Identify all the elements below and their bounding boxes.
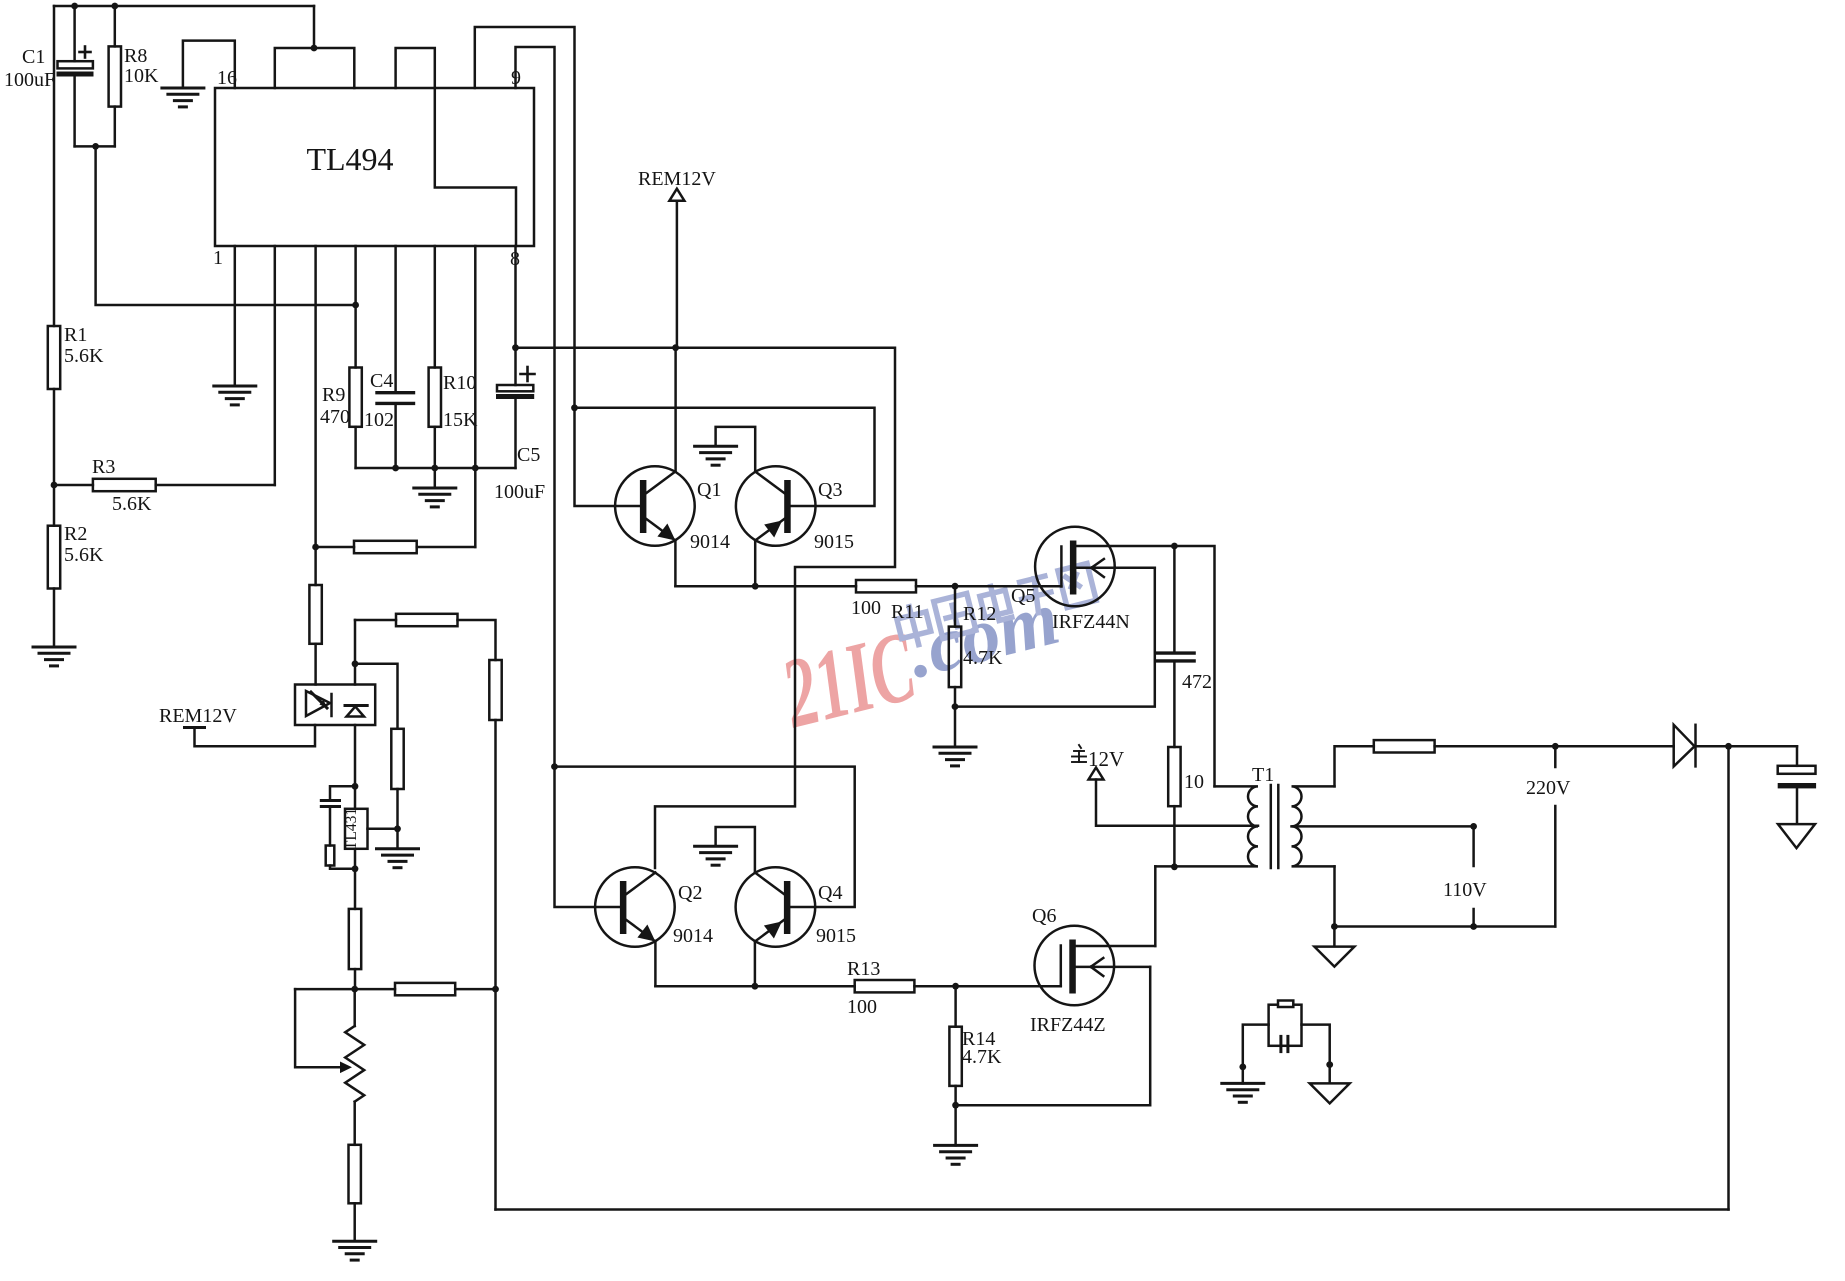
resistor R11 xyxy=(856,580,916,592)
wire jog down to feedback run xyxy=(96,146,356,305)
label 220V on drop wire xyxy=(1554,746,1557,926)
capacitor C5 (electrolytic) xyxy=(496,246,535,468)
IC U3 TL431 xyxy=(345,786,398,869)
svg-text:110V: 110V xyxy=(1443,879,1487,901)
svg-text:10K: 10K xyxy=(124,65,159,87)
wire R12 bottom to ground xyxy=(954,707,957,747)
wire left rail down to R1 xyxy=(53,6,56,326)
node junction TL431 anode xyxy=(352,865,359,872)
svg-text:470: 470 xyxy=(320,406,350,428)
svg-text:T1: T1 xyxy=(1252,764,1274,786)
svg-text:TL494: TL494 xyxy=(306,141,393,177)
resistor R8 xyxy=(109,6,121,146)
resistor R3 xyxy=(54,479,275,491)
transistor Q5 IRFZ44N (N-MOSFET) xyxy=(1035,527,1115,607)
wire stub to ground on bus xyxy=(434,468,437,488)
svg-text:R2: R2 xyxy=(64,523,87,545)
svg-text:5.6K: 5.6K xyxy=(64,345,104,367)
resistor sense (unlabeled horizontal) xyxy=(295,983,495,995)
svg-text:1: 1 xyxy=(213,247,223,269)
resistor feedback chain (unlabeled vertical) xyxy=(489,660,501,1210)
ground (timing bus) xyxy=(414,488,456,507)
wire Q6 gate lead xyxy=(956,985,1061,988)
svg-text:R13: R13 xyxy=(847,958,880,980)
wire Q4 collector to ground loop xyxy=(716,827,755,873)
node junction output to bottom return xyxy=(1725,743,1732,750)
svg-text:10: 10 xyxy=(1184,771,1204,793)
wire R13 to gate node xyxy=(914,985,955,988)
capacitor C4 xyxy=(377,246,414,468)
node junction secondary bottom xyxy=(1331,923,1338,930)
wire Q1 collector xyxy=(674,348,677,472)
wire opto branch to divider xyxy=(355,664,398,729)
ground (pin 16) xyxy=(162,88,204,107)
svg-text:R8: R8 xyxy=(124,45,147,67)
resistor opto series (unlabeled) xyxy=(309,547,321,685)
wire top supply rail xyxy=(54,5,314,8)
svg-text:TL431: TL431 xyxy=(343,808,360,850)
node junction resonator left xyxy=(1239,1064,1246,1071)
label 主12V xyxy=(1072,745,1086,762)
resistor 10 (snubber) xyxy=(1168,747,1180,867)
svg-text:Q5: Q5 xyxy=(1011,585,1035,607)
svg-text:C5: C5 xyxy=(517,444,540,466)
wire driver rail to R11 xyxy=(675,585,856,588)
wire timing bottom bus xyxy=(356,467,516,470)
svg-text:R10: R10 xyxy=(443,372,476,394)
wire top pins pair loop (VCC) xyxy=(275,48,355,88)
resistor feedback (unlabeled) on node row 547 xyxy=(316,541,476,553)
optocoupler photodiode xyxy=(345,706,367,717)
node junction R8 top xyxy=(111,3,118,10)
resistor R12 xyxy=(949,586,961,706)
wire supply run to MOSFET side xyxy=(516,348,896,868)
resistor R10 xyxy=(429,246,441,468)
wire photodiode top xyxy=(354,620,357,685)
wire R14 bottom to ground xyxy=(954,1105,957,1145)
transformer core xyxy=(1270,785,1273,868)
svg-text:100: 100 xyxy=(847,996,877,1018)
ground (bottom left) xyxy=(334,1241,376,1260)
svg-text:R9: R9 xyxy=(322,384,345,406)
resistor bottom (unlabeled) xyxy=(349,1145,361,1241)
svg-text:R12: R12 xyxy=(963,603,996,625)
node junction R13/R14/Q6 gate xyxy=(952,983,959,990)
svg-text:R3: R3 xyxy=(92,456,115,478)
wire rheostat top stub xyxy=(353,989,356,1026)
wire R11 to gate node xyxy=(916,585,955,588)
wire Q3 emitter to rail xyxy=(754,541,757,587)
svg-text:9015: 9015 xyxy=(814,531,854,553)
wire supply to TL494 top pins xyxy=(313,6,316,48)
chassis arrow (resonator) xyxy=(1310,1083,1350,1103)
svg-text:Q4: Q4 xyxy=(818,882,842,904)
node junction pin8/C5/supply xyxy=(512,344,519,351)
svg-text:Q6: Q6 xyxy=(1032,905,1056,927)
transistor Q2 9014 (NPN) xyxy=(595,867,675,947)
wire secondary bottom down xyxy=(1333,866,1336,926)
svg-text:100: 100 xyxy=(851,597,881,619)
svg-text:16: 16 xyxy=(217,67,237,89)
label 110V on drop wire xyxy=(1472,826,1475,926)
svg-text:100uF: 100uF xyxy=(4,69,55,91)
ground (TL431 ref) xyxy=(377,849,419,868)
wire Q6 drain xyxy=(1076,945,1156,948)
svg-text:472: 472 xyxy=(1182,671,1212,693)
wire top pins n-loop xyxy=(396,48,435,88)
transformer T1 primary winding xyxy=(1155,786,1258,866)
wire R1 to R3 node xyxy=(53,389,56,526)
wire Q2 emitter to rail xyxy=(654,942,657,987)
wire Q1 emitter to rail xyxy=(674,541,677,587)
node junction opto chain xyxy=(312,544,319,551)
chassis arrow (secondary bottom) xyxy=(1314,927,1354,967)
transistor Q3 9015 (PNP) xyxy=(736,466,816,546)
node junction snubber top xyxy=(1171,543,1178,550)
rheostat wiper arm xyxy=(295,989,352,1073)
capacitor output (electrolytic) xyxy=(1778,746,1816,824)
svg-text:5.6K: 5.6K xyxy=(64,544,104,566)
svg-text:9014: 9014 xyxy=(673,925,713,947)
svg-text:9015: 9015 xyxy=(816,925,856,947)
terminal REM12V (top) xyxy=(669,189,684,348)
capacitor 472 (snubber) xyxy=(1158,546,1195,747)
resistor feedback top (unlabeled) xyxy=(355,614,496,660)
node junction resonator right xyxy=(1326,1061,1333,1068)
wire LED cathode to REM12V terminal xyxy=(195,725,316,746)
wire Q4 emitter to rail xyxy=(754,942,757,987)
wire rheostat to lower resistor xyxy=(353,1102,356,1145)
transformer secondary winding xyxy=(1292,786,1335,866)
wire bottom return bus xyxy=(496,1208,1729,1211)
node junction R11/R12/Q5 gate xyxy=(952,583,959,590)
wire R2 to ground xyxy=(53,589,56,648)
svg-text:220V: 220V xyxy=(1526,777,1571,799)
node junction Q4 emitter on rail xyxy=(752,983,759,990)
svg-text:15K: 15K xyxy=(443,409,478,431)
svg-text:C4: C4 xyxy=(370,370,393,392)
node junction R12 bottom xyxy=(952,703,959,710)
svg-text:R11: R11 xyxy=(891,601,924,623)
wire pin 1 stem xyxy=(234,246,237,386)
wire pin16 to ground xyxy=(183,41,235,88)
node junction pin7 line xyxy=(472,465,479,472)
resistor R2 xyxy=(48,526,60,589)
wire internal jog pin9-pin8 route xyxy=(435,88,516,246)
node junction pin riser xyxy=(311,45,318,52)
wire 220V bottom run xyxy=(1334,925,1555,928)
svg-text:IRFZ44N: IRFZ44N xyxy=(1052,611,1130,633)
node junction C4 bottom xyxy=(392,465,399,472)
wire right return riser xyxy=(1727,746,1730,1209)
resistor R9 xyxy=(349,246,361,468)
wire diode to output cap xyxy=(1696,745,1797,748)
node junction R1/R2/R3 xyxy=(51,482,58,489)
svg-text:12V: 12V xyxy=(1088,747,1124,771)
wire C1/R8 bottom jog xyxy=(75,145,115,148)
optocoupler U2 box xyxy=(295,685,375,726)
node junction sense to bottom return xyxy=(492,986,499,993)
optocoupler LED xyxy=(306,691,332,716)
svg-text:Q2: Q2 xyxy=(678,882,702,904)
transistor Q4 9015 (PNP) xyxy=(736,867,816,947)
wire Q6 source xyxy=(1076,966,1151,969)
diode D1 output rectifier xyxy=(1674,725,1696,767)
wire resonator left to ground xyxy=(1243,1025,1269,1067)
node junction opto top branch xyxy=(352,660,359,667)
node junction 220V tap xyxy=(1552,743,1559,750)
wire Q3 collector to ground loop xyxy=(716,427,756,472)
wire secondary top to output resistor xyxy=(1335,746,1374,786)
svg-text:Q3: Q3 xyxy=(818,479,842,501)
resistor divider lower (unlabeled) xyxy=(349,869,361,989)
node junction R10 bottom xyxy=(431,465,438,472)
wire cross-couple to Q3 base xyxy=(575,408,875,506)
svg-text:REM12V: REM12V xyxy=(159,705,237,727)
terminal 主12V center-tap feed xyxy=(1089,768,1259,826)
node junction snubber bottom xyxy=(1171,863,1178,870)
svg-text:REM12V: REM12V xyxy=(638,168,716,190)
node junction R14 bottom xyxy=(952,1102,959,1109)
wire pin 9 loop down to lower driver xyxy=(516,47,555,767)
svg-text:9014: 9014 xyxy=(690,531,730,553)
wire Q6 source return loop xyxy=(956,967,1151,1105)
resistor R13 xyxy=(855,980,915,992)
node junction C1 top xyxy=(71,3,78,10)
wire TL431 ref to ground xyxy=(396,829,399,849)
node junction rheostat top xyxy=(351,986,358,993)
wire photodiode bottom xyxy=(354,725,357,786)
node junction Q3 emitter on rail xyxy=(752,583,759,590)
resistor R14 xyxy=(949,986,961,1105)
node junction secondary mid tap xyxy=(1470,823,1477,830)
svg-text:IRFZ44Z: IRFZ44Z xyxy=(1030,1014,1106,1036)
node junction 110V bottom xyxy=(1470,923,1477,930)
wire Q5 drain to transformer xyxy=(1076,546,1214,786)
svg-text:Q1: Q1 xyxy=(697,479,721,501)
wire Q1 base lead xyxy=(575,408,641,506)
svg-text:4.7K: 4.7K xyxy=(962,1046,1002,1068)
compensation RC branch xyxy=(321,786,355,869)
resistor R1 xyxy=(48,326,60,389)
resistor divider upper (unlabeled) xyxy=(391,729,403,829)
svg-text:C1: C1 xyxy=(22,46,45,68)
wire pin 3 down to opto chain node xyxy=(314,246,317,547)
node junction opto bottom / compensation xyxy=(352,783,359,790)
resonator/filter component xyxy=(1269,1001,1302,1052)
wire cross run to Q4 base riser xyxy=(555,767,855,907)
wire Q5 source xyxy=(1076,567,1155,570)
node junction REM12V / Q1 collector xyxy=(672,344,679,351)
ground (Q1/Q3) xyxy=(695,446,737,465)
ground (resonator) xyxy=(1222,1083,1264,1102)
wire primary bottom to Q6 drain xyxy=(1154,866,1157,946)
chassis arrow (output cap) xyxy=(1778,824,1815,848)
capacitor C1 (electrolytic) xyxy=(57,6,94,146)
transistor Q6 IRFZ44Z (N-MOSFET) xyxy=(1035,926,1115,1006)
IC U1 TL494 body xyxy=(215,88,534,246)
wire resonator right to chassis xyxy=(1302,1025,1330,1065)
terminal REM12V (left) xyxy=(185,726,205,729)
svg-text:R1: R1 xyxy=(64,324,87,346)
ground (R2) xyxy=(33,647,75,666)
wire Q5 source return loop xyxy=(955,568,1155,707)
node junction on pin 4 line xyxy=(352,302,359,309)
wire Q5 gate lead xyxy=(955,585,1061,588)
node junction jog xyxy=(92,143,99,150)
wire output resistor to diode xyxy=(1435,745,1674,748)
ground (Q2/Q4) xyxy=(695,846,737,865)
watermark 21IC.com 中国电子网 xyxy=(771,573,1073,749)
node junction TL431 ref xyxy=(394,825,401,832)
transistor Q1 9014 (NPN) xyxy=(615,466,695,546)
wire lower rail to R13 xyxy=(655,985,854,988)
ground (pin 1) xyxy=(214,386,256,405)
node junction pin9 line to Q2 base xyxy=(551,763,558,770)
ground (R12) xyxy=(934,747,976,766)
wire R3 up to TL494 pin 2 xyxy=(274,246,277,485)
svg-text:100uF: 100uF xyxy=(494,481,545,503)
svg-text:5.6K: 5.6K xyxy=(112,493,152,515)
ground (R14) xyxy=(935,1145,977,1164)
svg-text:4.7K: 4.7K xyxy=(963,647,1003,669)
rheostat zigzag resistor xyxy=(345,1026,364,1102)
svg-text:102: 102 xyxy=(364,409,394,431)
wire secondary mid tap xyxy=(1292,825,1474,828)
node junction Q1 base branch xyxy=(571,404,578,411)
wire pin 7 down xyxy=(474,246,477,547)
wire outer top loop down to Q1 base node xyxy=(475,27,575,408)
resistor output (unlabeled) xyxy=(1374,740,1435,752)
wire Q2 base lead xyxy=(555,767,620,907)
